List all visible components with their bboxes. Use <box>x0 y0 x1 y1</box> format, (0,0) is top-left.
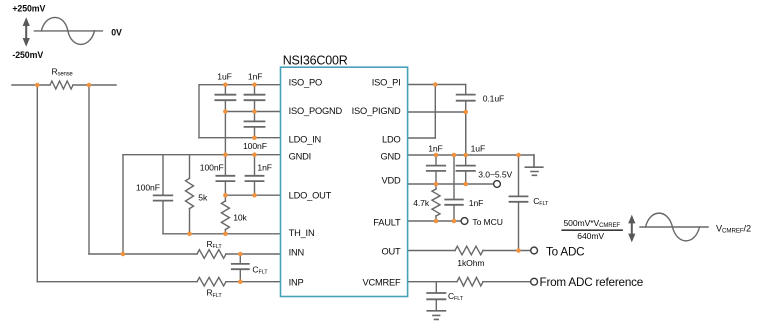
wire VDD <box>408 183 494 185</box>
capacitor C 100nF left leg <box>162 155 164 234</box>
svg-text:LDO_IN: LDO_IN <box>289 134 321 144</box>
double arrow +-250mV <box>23 17 30 47</box>
capacitor C 100nF ldoin plates <box>245 121 265 127</box>
wire ISO_PO net <box>199 85 281 138</box>
terminal From ADC reference <box>531 278 538 285</box>
wire GNDI left drop to INN <box>122 155 124 254</box>
capacitor CFLT in plates <box>232 264 249 269</box>
junction VDD a <box>434 182 439 187</box>
capacitor C 100nF left plates <box>154 195 173 200</box>
svg-text:ISO_POGND: ISO_POGND <box>289 106 343 116</box>
capacitor C 1nF top plates <box>245 95 265 101</box>
svg-text:+250mV: +250mV <box>12 4 45 14</box>
capacitor C 1uF vdd leg <box>465 112 467 184</box>
capacitor C 1uF left column plumbing <box>224 85 226 155</box>
resistor 10k legs <box>224 195 226 234</box>
wire ISO_PI <box>408 84 466 86</box>
junction TH_IN b <box>223 232 228 237</box>
svg-text:TH_IN: TH_IN <box>289 228 315 238</box>
junction FAULT b <box>452 219 457 224</box>
sine wave right curve <box>646 213 700 241</box>
svg-text:3.0~5.5V: 3.0~5.5V <box>478 170 512 180</box>
junction ISO_POGND b <box>252 109 257 114</box>
svg-text:OUT: OUT <box>381 247 401 257</box>
svg-text:INP: INP <box>289 278 304 288</box>
svg-text:100nF: 100nF <box>200 162 224 172</box>
wire LDO_IN <box>199 137 281 139</box>
junction ISO_PO b <box>252 82 257 87</box>
resistor 10k <box>221 201 229 230</box>
svg-text:1uF: 1uF <box>471 143 486 153</box>
resistor VCMREF series <box>457 277 483 286</box>
svg-text:To MCU: To MCU <box>472 217 502 227</box>
sine wave right axis <box>640 226 708 228</box>
wire shunt+ vertical to INP <box>36 85 38 282</box>
capacitor C 100nF mid plates <box>216 176 234 181</box>
capacitor CFLT vcm leg <box>435 282 437 311</box>
resistor RFLT inp <box>197 277 226 286</box>
terminal To MCU <box>461 218 468 225</box>
ground symbol GND <box>525 155 543 175</box>
junction FAULT a <box>434 219 439 224</box>
resistor 1kOhm <box>455 246 483 255</box>
wire ISO_PIGND <box>408 111 466 113</box>
wire ISO_PI drop to LDO <box>434 85 436 139</box>
svg-text:-250mV: -250mV <box>12 50 43 60</box>
svg-text:100nF: 100nF <box>243 141 267 151</box>
node shunt- <box>87 83 92 88</box>
wire INP <box>37 281 280 283</box>
junction GNDI b <box>252 152 257 157</box>
capacitor C 1nF top column plumbing <box>254 85 256 138</box>
svg-text:4.7k: 4.7k <box>413 198 430 208</box>
resistor 4.7k legs <box>435 184 437 221</box>
wire INN <box>89 253 281 255</box>
capacitor CFLT vcm plates <box>427 293 445 299</box>
junction GND c <box>463 153 468 158</box>
svg-text:ISO_PIGND: ISO_PIGND <box>352 106 401 116</box>
capacitor C 1nF ldoout leg <box>254 155 256 196</box>
sine wave left axis <box>34 30 102 32</box>
junction OUT <box>516 248 521 253</box>
capacitor C 0.1uF plates <box>457 95 475 101</box>
junction ISO_PIGND <box>463 110 468 115</box>
junction GND a <box>434 153 439 158</box>
sine wave left curve <box>41 17 94 44</box>
svg-text:VDD: VDD <box>381 176 401 186</box>
terminal To ADC <box>531 247 538 254</box>
svg-text:NSI36C00R: NSI36C00R <box>283 53 348 67</box>
capacitor C 1nF vdd leg <box>435 155 437 184</box>
wire FAULT <box>408 220 461 222</box>
svg-text:FAULT: FAULT <box>373 217 401 227</box>
svg-text:100nF: 100nF <box>136 183 160 193</box>
svg-text:From ADC reference: From ADC reference <box>540 276 644 289</box>
wire GNDI rail <box>123 154 281 156</box>
capacitor C 0.1uF leg <box>465 85 467 156</box>
capacitor C 1uF vdd plates <box>457 166 475 171</box>
svg-text:1kOhm: 1kOhm <box>457 258 484 268</box>
svg-text:1uF: 1uF <box>217 72 232 82</box>
svg-text:INN: INN <box>289 248 304 258</box>
resistor Rsense <box>50 81 73 89</box>
junction ISO_POGND a <box>223 109 228 114</box>
resistor RFLT inn <box>197 250 226 259</box>
svg-text:5k: 5k <box>198 192 208 202</box>
fraction bar <box>561 230 623 231</box>
wire ISO_POGND <box>225 111 280 113</box>
svg-text:10k: 10k <box>233 212 247 222</box>
svg-text:1nF: 1nF <box>257 162 272 172</box>
junction LDO_OUT b <box>252 193 257 198</box>
wire GND <box>408 154 534 156</box>
capacitor C 1nF ldoout plates <box>246 176 264 181</box>
capacitor C 1uF plates <box>215 95 235 101</box>
svg-text:ISO_PI: ISO_PI <box>372 78 401 88</box>
resistor 4.7k <box>432 189 440 216</box>
junction TH_IN a <box>187 232 192 237</box>
svg-text:ISO_PO: ISO_PO <box>289 78 322 88</box>
svg-text:GND: GND <box>380 151 401 161</box>
svg-text:GNDI: GNDI <box>289 151 311 161</box>
junction INN a <box>121 252 126 257</box>
svg-text:LDO: LDO <box>382 134 401 144</box>
terminal circles <box>461 181 537 286</box>
junction INP <box>238 279 243 284</box>
capacitor CFLT out plates <box>510 196 528 201</box>
junction GND b <box>452 153 457 158</box>
double arrow 640mV swing <box>628 215 635 243</box>
junction LDO_OUT a <box>223 193 228 198</box>
capacitor CFLT in leg <box>239 254 241 282</box>
svg-text:VCMREF: VCMREF <box>362 278 401 288</box>
junction GNDI a <box>223 152 228 157</box>
capacitor C 1nF fault leg <box>453 155 455 221</box>
junction ISO_PO a <box>223 82 228 87</box>
wire OUT <box>408 250 531 252</box>
wire LDO_OUT <box>225 194 280 196</box>
resistor 5k <box>186 178 194 208</box>
svg-text:0.1uF: 0.1uF <box>483 93 504 103</box>
wire TH_IN <box>163 233 281 235</box>
junction INN b <box>238 252 243 257</box>
svg-text:LDO_OUT: LDO_OUT <box>289 191 332 201</box>
svg-text:0V: 0V <box>111 27 122 37</box>
junction GND d <box>516 153 521 158</box>
svg-text:To ADC: To ADC <box>546 246 584 259</box>
svg-text:640mV: 640mV <box>577 231 604 241</box>
capacitor C 1nF vdd plates <box>427 166 445 171</box>
svg-text:1nF: 1nF <box>428 143 443 153</box>
capacitor C 100nF mid leg <box>224 155 226 196</box>
terminal 3.0-5.5V <box>494 181 501 188</box>
junction VDD b <box>463 182 468 187</box>
ground symbol VCMREF cap <box>427 311 445 320</box>
svg-text:1nF: 1nF <box>469 198 484 208</box>
wire VCMREF <box>408 281 531 283</box>
node shunt+ <box>35 83 40 88</box>
capacitor C 1nF fault plates <box>445 200 463 205</box>
svg-text:1nF: 1nF <box>248 72 263 82</box>
wire shunt- vertical to INN <box>88 85 90 254</box>
IC NSI36C00R body <box>281 67 408 296</box>
junction LDO_IN <box>252 135 257 140</box>
wire Rsense line <box>12 84 116 86</box>
wire LDO <box>408 137 436 139</box>
junction ISO_PI <box>433 82 438 87</box>
capacitor CFLT out leg <box>518 155 520 251</box>
resistor 5k legs <box>189 155 191 234</box>
